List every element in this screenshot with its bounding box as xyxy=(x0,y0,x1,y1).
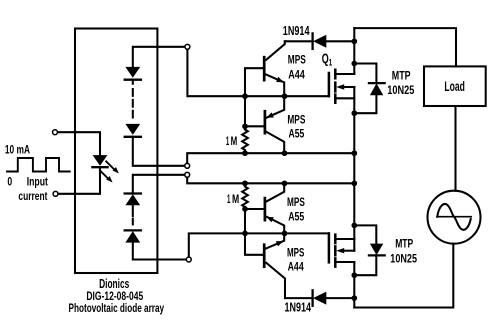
wire PV top lead xyxy=(133,47,185,67)
mosfet Q1 gate bar xyxy=(328,73,331,96)
wire PV mid lower xyxy=(133,175,185,194)
wire bottom rail xyxy=(354,244,453,308)
photovoltaic diode 1 xyxy=(125,67,140,78)
wire T3 to source rail 2 xyxy=(187,178,354,184)
svg-text:A44: A44 xyxy=(288,260,304,274)
svg-text:A44: A44 xyxy=(288,67,305,81)
svg-text:10 mA: 10 mA xyxy=(5,143,30,157)
svg-text:A55: A55 xyxy=(289,126,305,140)
resistor 1M lower xyxy=(242,187,248,207)
transistor MPS A55 upper xyxy=(264,111,267,133)
transistor MPS A44 lower xyxy=(263,245,266,267)
mosfet Q1 drain stub xyxy=(335,73,354,75)
wire source tie net xyxy=(353,87,355,251)
svg-text:Load: Load xyxy=(444,78,465,94)
svg-text:MTP: MTP xyxy=(392,68,411,82)
LED input diode xyxy=(93,155,108,166)
wire PV mid upper xyxy=(133,137,185,166)
LED emission arrow 2 xyxy=(100,170,109,179)
mosfet Q1 body stub arrow xyxy=(336,84,344,89)
wire load to AC source xyxy=(454,106,456,191)
wire PV bottom lead xyxy=(133,243,186,260)
svg-text:1N914: 1N914 xyxy=(285,299,312,314)
wire base bus V2 xyxy=(245,207,264,255)
junction dots emitter nodes xyxy=(282,93,288,236)
body diode upper MTP 10N25 xyxy=(354,64,376,84)
svg-text:MPS: MPS xyxy=(288,53,306,67)
input terminal upper xyxy=(53,130,58,135)
svg-text:current: current xyxy=(18,189,47,203)
diode 1N914 lower xyxy=(285,297,311,299)
resistor 1M upper xyxy=(242,130,248,154)
mosfet Q1 channel segments xyxy=(334,70,337,103)
svg-text:1: 1 xyxy=(329,57,332,67)
svg-text:1N914: 1N914 xyxy=(283,23,310,38)
wire base bus V1 xyxy=(245,68,264,129)
photovoltaic diode 2 xyxy=(125,124,140,135)
photovoltaic diode 3 xyxy=(125,192,141,194)
LED emission arrow 1 xyxy=(106,161,115,170)
svg-text:Photovoltaic diode array: Photovoltaic diode array xyxy=(69,301,165,315)
transistor MPS A44 upper xyxy=(263,57,266,80)
mosfet MTP10N25 lower channel segments xyxy=(334,235,337,267)
svg-text:1M: 1M xyxy=(227,192,239,206)
terminal T4 xyxy=(186,257,191,262)
wire top rail xyxy=(354,28,456,66)
wire dashed D1-D2 xyxy=(132,81,134,84)
diode 1N914 upper xyxy=(285,40,311,42)
mosfet MTP10N25 lower source stub xyxy=(335,238,354,240)
mosfet Q1 source stub xyxy=(335,97,354,99)
svg-text:MPS: MPS xyxy=(287,195,305,209)
svg-text:MPS: MPS xyxy=(287,113,305,127)
svg-text:Q: Q xyxy=(322,50,329,66)
waveform input current xyxy=(7,158,70,172)
load box xyxy=(424,66,486,106)
svg-text:A55: A55 xyxy=(288,210,304,224)
box Dionics photovoltaic array xyxy=(75,29,157,274)
input terminal lower xyxy=(53,191,58,196)
svg-text:0: 0 xyxy=(7,174,12,188)
wire T1 to upper gate line xyxy=(187,50,329,96)
ac source xyxy=(428,191,481,244)
wire drain net upper xyxy=(353,28,355,74)
svg-text:10N25: 10N25 xyxy=(387,83,414,97)
mosfet MTP10N25 lower body stub arrow xyxy=(336,248,344,253)
svg-text:Input: Input xyxy=(27,174,48,188)
mosfet MTP10N25 lower gate bar xyxy=(328,233,331,262)
body diode lower MTP 10N25 xyxy=(354,225,376,244)
junction dots base bus xyxy=(242,93,248,236)
transistor MPS A55 lower xyxy=(264,198,267,220)
photovoltaic diode 4 xyxy=(125,229,141,231)
terminal T3 xyxy=(185,172,190,177)
terminal T1 xyxy=(185,44,190,49)
svg-text:MPS: MPS xyxy=(287,245,304,259)
mosfet MTP10N25 lower drain stub xyxy=(335,261,354,263)
wire input upper xyxy=(58,132,100,155)
junction dots main vertical xyxy=(351,38,357,301)
terminal T2 xyxy=(185,163,190,168)
svg-text:MTP: MTP xyxy=(395,237,413,251)
svg-text:10N25: 10N25 xyxy=(390,251,417,265)
wire T4 to lower gate line xyxy=(189,233,329,256)
wire T2 to source rail 1 xyxy=(187,153,354,163)
wire input lower xyxy=(58,167,100,194)
wire dashed D3-D4 xyxy=(132,205,134,209)
wire drain net lower xyxy=(353,262,355,308)
svg-text:1M: 1M xyxy=(226,134,237,148)
